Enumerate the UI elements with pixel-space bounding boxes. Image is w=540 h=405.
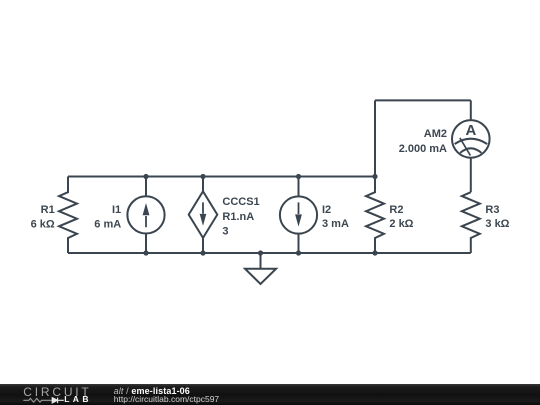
wire CCCS1 top lead (202, 177, 204, 192)
ground (260, 253, 262, 269)
svg-text:http://circuitlab.com/ctpc597: http://circuitlab.com/ctpc597 (114, 394, 220, 404)
svg-text:6 mA: 6 mA (94, 218, 121, 230)
node dot CCCS1 bottom (200, 250, 205, 255)
wire CCCS1 bottom lead (202, 238, 204, 253)
node dot R2 bottom (372, 250, 377, 255)
svg-text:2 kΩ: 2 kΩ (389, 218, 413, 230)
svg-text:I1: I1 (112, 204, 121, 216)
node dot CCCS1 top (200, 174, 205, 179)
wire bottom rail (68, 252, 471, 254)
svg-text:LAB: LAB (64, 394, 92, 404)
node dot I1 top (143, 174, 148, 179)
svg-text:3 mA: 3 mA (322, 218, 349, 230)
svg-text:R3: R3 (485, 204, 499, 216)
wire AM2 top lead (470, 100, 472, 120)
wire I1 top lead (145, 177, 147, 197)
svg-text:2.000 mA: 2.000 mA (399, 143, 447, 155)
node dot I2 top (296, 174, 301, 179)
svg-text:R1: R1 (41, 204, 55, 216)
wire R2 to top (374, 100, 376, 176)
svg-text:CCCS1: CCCS1 (222, 196, 259, 208)
svg-text:A: A (465, 122, 476, 139)
wire I2 top lead (298, 177, 300, 197)
current source I2 (280, 196, 317, 233)
ammeter AM2 (452, 120, 490, 158)
wire AM2 to R3 (470, 158, 472, 193)
wire I2 bottom lead (298, 234, 300, 253)
wire top branch (375, 99, 471, 101)
current source I1 (127, 196, 164, 233)
svg-text:6 kΩ: 6 kΩ (31, 218, 55, 230)
svg-text:3: 3 (222, 226, 228, 238)
wire top rail (68, 176, 375, 178)
node dot R2 top (372, 174, 377, 179)
node dot I1 bottom (143, 250, 148, 255)
wire I1 bottom lead (145, 234, 147, 254)
node dot ground (258, 250, 263, 255)
svg-text:AM2: AM2 (424, 128, 447, 140)
logo resistor squiggle and diode (23, 398, 52, 402)
svg-text:R1.nA: R1.nA (222, 211, 254, 223)
svg-text:R2: R2 (389, 204, 403, 216)
node dot I2 bottom (296, 250, 301, 255)
CCCS1 dependent source diamond (189, 191, 218, 238)
resistor R2 (366, 177, 384, 254)
resistor R1 (59, 177, 77, 254)
resistor R3 (462, 192, 480, 253)
svg-text:I2: I2 (322, 204, 331, 216)
svg-text:3 kΩ: 3 kΩ (485, 218, 509, 230)
